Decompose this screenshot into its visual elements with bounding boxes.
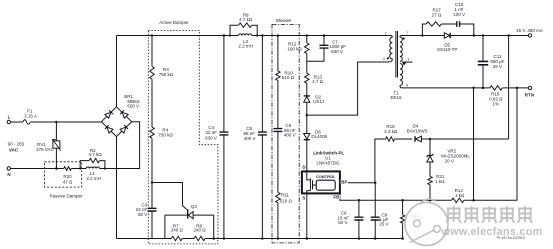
wire bridge top to DC+ rail bbox=[116, 36, 118, 107]
wire secondary return rail bbox=[402, 87, 490, 89]
junction C8 bottom bbox=[358, 237, 361, 240]
passive damper box bbox=[45, 162, 84, 199]
diode D4 bbox=[407, 123, 509, 141]
transistor Q3 bbox=[165, 204, 214, 238]
junction sense riser top bbox=[472, 87, 475, 90]
resistor R21 bbox=[428, 174, 445, 185]
pin 1 label bbox=[385, 31, 387, 35]
resistor R9 parallel loop bbox=[230, 13, 257, 36]
wire R10 to C6 bbox=[277, 80, 279, 128]
svg-text:FB: FB bbox=[333, 195, 340, 200]
node L input terminal bbox=[7, 115, 11, 124]
zener VR2 bbox=[427, 139, 471, 176]
junction snubber left bbox=[421, 34, 424, 37]
svg-text:25 V: 25 V bbox=[493, 64, 502, 69]
fuse F1 bbox=[23, 108, 37, 124]
svg-text:20 V: 20 V bbox=[445, 158, 454, 163]
wire sense riser bbox=[472, 88, 475, 202]
wire R21 to FB line bbox=[429, 185, 432, 202]
wire rail to R3 bbox=[151, 36, 153, 67]
wire drain node to T1 pin2 bbox=[307, 62, 387, 115]
wire L1 to bridge bbox=[100, 122, 140, 169]
wire R14 to RTN riser bbox=[464, 88, 517, 200]
wire L to fuse bbox=[11, 121, 23, 123]
svg-text:510 Ω: 510 Ω bbox=[280, 198, 293, 203]
capacitor C11 bbox=[478, 36, 505, 88]
junction RV1 top bbox=[55, 121, 58, 124]
junction C5 top bbox=[261, 34, 264, 37]
svg-text:4.7 kΩ: 4.7 kΩ bbox=[239, 17, 253, 22]
pin D label bbox=[302, 165, 306, 170]
wire R15 to D4 bbox=[395, 138, 413, 140]
resistor R16 (under watermark) bbox=[400, 199, 420, 240]
svg-text:4.7 kΩ: 4.7 kΩ bbox=[88, 152, 102, 157]
resistor R10 bbox=[276, 70, 295, 80]
resistor R2 parallel loop bbox=[80, 148, 105, 169]
svg-text:7: 7 bbox=[407, 31, 409, 35]
op-amp U1 LinkSwitch-PL IC box bbox=[302, 151, 345, 194]
node N input terminal bbox=[7, 167, 11, 177]
svg-text:www.elecfans.com: www.elecfans.com bbox=[441, 226, 543, 238]
diode D6 bbox=[304, 130, 328, 172]
wire rail to R10 bbox=[277, 36, 279, 71]
pin FB label bbox=[333, 195, 340, 200]
capacitor C7 bbox=[320, 36, 347, 62]
wire D5 to output terminal bbox=[450, 35, 528, 37]
wire DC- rail b bbox=[182, 238, 194, 240]
resistor R3 bbox=[150, 66, 174, 79]
wire C7 bottom to R12 node bbox=[307, 60, 324, 62]
svg-text:LNK457DG: LNK457DG bbox=[316, 160, 340, 165]
junction C7 top bbox=[323, 34, 326, 37]
svg-text:510 Ω: 510 Ω bbox=[282, 75, 295, 80]
wire FB pin bbox=[340, 193, 452, 200]
node output terminal 15V bbox=[516, 28, 543, 37]
junction C4 bottom bbox=[223, 237, 226, 240]
svg-text:400 V: 400 V bbox=[244, 136, 256, 141]
junction R3 top bbox=[151, 34, 154, 37]
svg-text:VAC: VAC bbox=[9, 147, 19, 152]
junction C11 bottom bbox=[482, 87, 485, 90]
svg-text:Active Damper: Active Damper bbox=[159, 20, 189, 25]
junction R11 bottom bbox=[277, 237, 280, 240]
wire R3 to R4 bbox=[151, 79, 153, 127]
svg-text:240 Ω: 240 Ω bbox=[171, 228, 184, 233]
svg-text:240 Ω: 240 Ω bbox=[194, 228, 207, 233]
svg-text:3.15 A: 3.15 A bbox=[24, 114, 37, 119]
wire R19 to RTN terminal bbox=[502, 87, 528, 89]
transformer T1 primary winding bbox=[387, 36, 392, 63]
T1 core bbox=[396, 31, 398, 78]
svg-text:750 kΩ: 750 kΩ bbox=[159, 72, 174, 77]
capacitor C6 bbox=[273, 123, 295, 138]
svg-text:1: 1 bbox=[385, 31, 387, 35]
bridge diode bottom-left bbox=[105, 125, 113, 133]
junction BP C9 node bbox=[374, 182, 377, 185]
transformer T1 secondary winding upper bbox=[400, 36, 402, 62]
U1 control block bbox=[316, 174, 336, 190]
junction C4 top bbox=[223, 34, 226, 37]
junction output sense bbox=[507, 34, 510, 37]
wire DC- rail c bbox=[205, 238, 403, 240]
svg-text:6: 6 bbox=[406, 84, 408, 88]
svg-text:D: D bbox=[302, 165, 306, 170]
resistor R8 bbox=[194, 224, 207, 241]
svg-text:N: N bbox=[7, 172, 10, 177]
watermark chinese text bbox=[447, 206, 533, 223]
wire R4 to C3 node bbox=[151, 138, 153, 182]
svg-text:100 kΩ: 100 kΩ bbox=[287, 47, 302, 52]
svg-text:27 Ω: 27 Ω bbox=[432, 13, 442, 18]
svg-text:50 V: 50 V bbox=[338, 220, 347, 225]
wire R12 to node bbox=[306, 54, 308, 62]
resistor R15 bbox=[384, 124, 398, 141]
junction C3 top bbox=[151, 181, 154, 184]
svg-text:2.2 mH: 2.2 mH bbox=[238, 43, 253, 48]
junction VR2 node bbox=[429, 138, 432, 141]
wire BP to R15 bbox=[375, 139, 386, 183]
wire S pin to DC- rail bbox=[306, 193, 309, 239]
wire C6 to R11 bbox=[277, 132, 279, 193]
active damper box bbox=[148, 20, 218, 244]
svg-text:SS110-TP: SS110-TP bbox=[437, 47, 457, 52]
T1 primary dot bbox=[387, 57, 389, 59]
svg-text:1 kΩ: 1 kΩ bbox=[455, 193, 465, 198]
junction C5 bottom bbox=[261, 237, 264, 240]
capacitor C4 bbox=[205, 36, 228, 239]
wire DC- rail a bbox=[117, 238, 172, 240]
wire bridge bottom to DC- rail bbox=[116, 137, 118, 239]
wire N to R20 bbox=[11, 168, 64, 170]
svg-text:3.3 kΩ: 3.3 kΩ bbox=[384, 129, 398, 134]
wire node to R13 bbox=[306, 61, 308, 73]
svg-text:L: L bbox=[8, 115, 11, 120]
capacitor C10 snubber bbox=[442, 2, 474, 36]
wire Q3 left leg down bbox=[164, 215, 166, 238]
svg-text:R11: R11 bbox=[281, 192, 289, 197]
junction R10 top bbox=[277, 34, 280, 37]
junction C11 top bbox=[482, 34, 485, 37]
svg-text:R20: R20 bbox=[63, 174, 72, 179]
inductor L2 bbox=[238, 34, 253, 49]
capacitor C8 bbox=[337, 200, 363, 238]
svg-text:S: S bbox=[302, 196, 305, 201]
resistor R20 bbox=[63, 167, 73, 185]
junction R9 stub left bbox=[229, 34, 258, 36]
svg-text:US1J: US1J bbox=[313, 99, 324, 104]
bridge diode top-right bbox=[120, 110, 128, 118]
varistor RV1 bbox=[36, 122, 61, 169]
junction RV1 bottom bbox=[55, 167, 58, 170]
svg-text:630 V: 630 V bbox=[331, 49, 343, 54]
svg-text:22 nF: 22 nF bbox=[206, 130, 218, 135]
svg-text:275 VAC: 275 VAC bbox=[36, 147, 54, 152]
svg-text:DL4006: DL4006 bbox=[311, 134, 327, 139]
pin BP label bbox=[341, 180, 348, 185]
svg-text:2: 2 bbox=[383, 57, 385, 61]
label BR1 MB6S 600V bbox=[124, 94, 139, 109]
svg-text:100 V: 100 V bbox=[453, 12, 465, 17]
svg-text:25 V: 25 V bbox=[379, 221, 388, 226]
resistor R19 bbox=[489, 86, 503, 107]
wire Q3 base from R4 node bbox=[152, 183, 187, 211]
wire output sense riser bbox=[508, 36, 510, 140]
resistor R14 bbox=[452, 188, 465, 202]
resistor R11 bbox=[276, 192, 293, 203]
node RTN terminal bbox=[525, 86, 534, 97]
wire fuse to bridge bbox=[30, 121, 101, 123]
svg-text:BR1: BR1 bbox=[124, 94, 133, 99]
pin 7 label bbox=[407, 31, 409, 35]
svg-text:90 - 265: 90 - 265 bbox=[8, 142, 25, 147]
watermark logo eyes bbox=[410, 220, 441, 242]
svg-text:15 V, 350 mA: 15 V, 350 mA bbox=[516, 28, 543, 33]
bridge diode bottom-right bbox=[120, 125, 128, 133]
label PI drawing number bbox=[497, 236, 525, 240]
bridge rectifier BR1 outline bbox=[101, 107, 131, 137]
pin 6 label bbox=[406, 84, 408, 88]
svg-text:BAV19WS: BAV19WS bbox=[407, 128, 428, 133]
junction RTN riser bbox=[516, 87, 519, 90]
pin 2 label bbox=[383, 57, 385, 61]
junction R12 top bbox=[306, 34, 309, 37]
pin S label bbox=[302, 196, 305, 201]
svg-text:2.2 mH: 2.2 mH bbox=[86, 176, 101, 181]
svg-text:4.7 Ω: 4.7 Ω bbox=[312, 79, 324, 84]
svg-text:C4: C4 bbox=[208, 125, 214, 130]
wire R13 to D2 bbox=[306, 83, 308, 96]
junction Q3 collector rail bbox=[212, 237, 215, 240]
capacitor C5 bbox=[244, 36, 267, 239]
resistor R17 snubber bbox=[422, 8, 442, 36]
resistor R12 bbox=[287, 41, 309, 53]
wire DC+ rail right bbox=[252, 35, 391, 37]
U1 internal mosfet bbox=[307, 171, 316, 193]
bleeder box bbox=[272, 18, 299, 243]
junction C9 bottom bbox=[374, 237, 377, 240]
junction drain node bbox=[306, 114, 309, 117]
capacitor C3 bbox=[136, 183, 157, 239]
transformer T1 secondary winding lower bbox=[400, 64, 403, 88]
svg-text:1 kΩ: 1 kΩ bbox=[435, 179, 445, 184]
svg-text:3: 3 bbox=[407, 58, 409, 62]
wire node to D6 bbox=[306, 115, 308, 133]
resistor R7 bbox=[171, 224, 184, 241]
bridge diode top-left bbox=[105, 110, 113, 118]
diode D2 bbox=[304, 95, 325, 116]
wire BP pin bbox=[340, 182, 375, 184]
svg-text:BP: BP bbox=[341, 180, 347, 185]
svg-text:630 V: 630 V bbox=[205, 136, 217, 141]
wire R20 to L1 bbox=[71, 168, 86, 170]
capacitor C9 bbox=[371, 183, 389, 239]
svg-text:Bleeder: Bleeder bbox=[276, 18, 292, 23]
svg-text:47 Ω: 47 Ω bbox=[63, 179, 73, 184]
svg-text:Q3: Q3 bbox=[191, 204, 198, 209]
watermark logo circle bbox=[405, 199, 448, 245]
svg-text:PI-6171a-102910: PI-6171a-102910 bbox=[497, 236, 525, 240]
wire DC+ rail left bbox=[117, 35, 239, 37]
junction snubber right bbox=[473, 34, 476, 37]
inductor L1 bbox=[86, 167, 101, 181]
svg-text:400 V: 400 V bbox=[284, 133, 296, 138]
junction R2 stub left bbox=[79, 167, 106, 169]
svg-text:1%: 1% bbox=[492, 101, 499, 106]
resistor R13 bbox=[305, 73, 324, 84]
wire rail to R12 bbox=[306, 36, 308, 43]
T1 secondary dot bbox=[403, 37, 405, 39]
T1 tap pin 3 bbox=[402, 58, 413, 66]
resistor R4 bbox=[150, 127, 174, 138]
label T1 EE16 bbox=[390, 91, 402, 101]
svg-text:Passive Damper: Passive Damper bbox=[49, 193, 83, 198]
svg-text:CONTROL: CONTROL bbox=[316, 174, 336, 179]
svg-text:RTN: RTN bbox=[525, 93, 534, 98]
wire R11 to DC- rail bbox=[277, 203, 279, 239]
wire pin7 to D5 bbox=[401, 35, 444, 37]
svg-text:600 V: 600 V bbox=[127, 104, 139, 109]
node 90-265 VAC label bbox=[8, 142, 25, 153]
svg-text:50 V: 50 V bbox=[138, 212, 147, 217]
watermark elecfans url bbox=[441, 226, 543, 238]
junction C8 node bbox=[358, 199, 361, 202]
svg-text:750 kΩ: 750 kΩ bbox=[158, 132, 173, 137]
svg-text:EE16: EE16 bbox=[390, 95, 402, 100]
diode D5 bbox=[437, 33, 457, 52]
